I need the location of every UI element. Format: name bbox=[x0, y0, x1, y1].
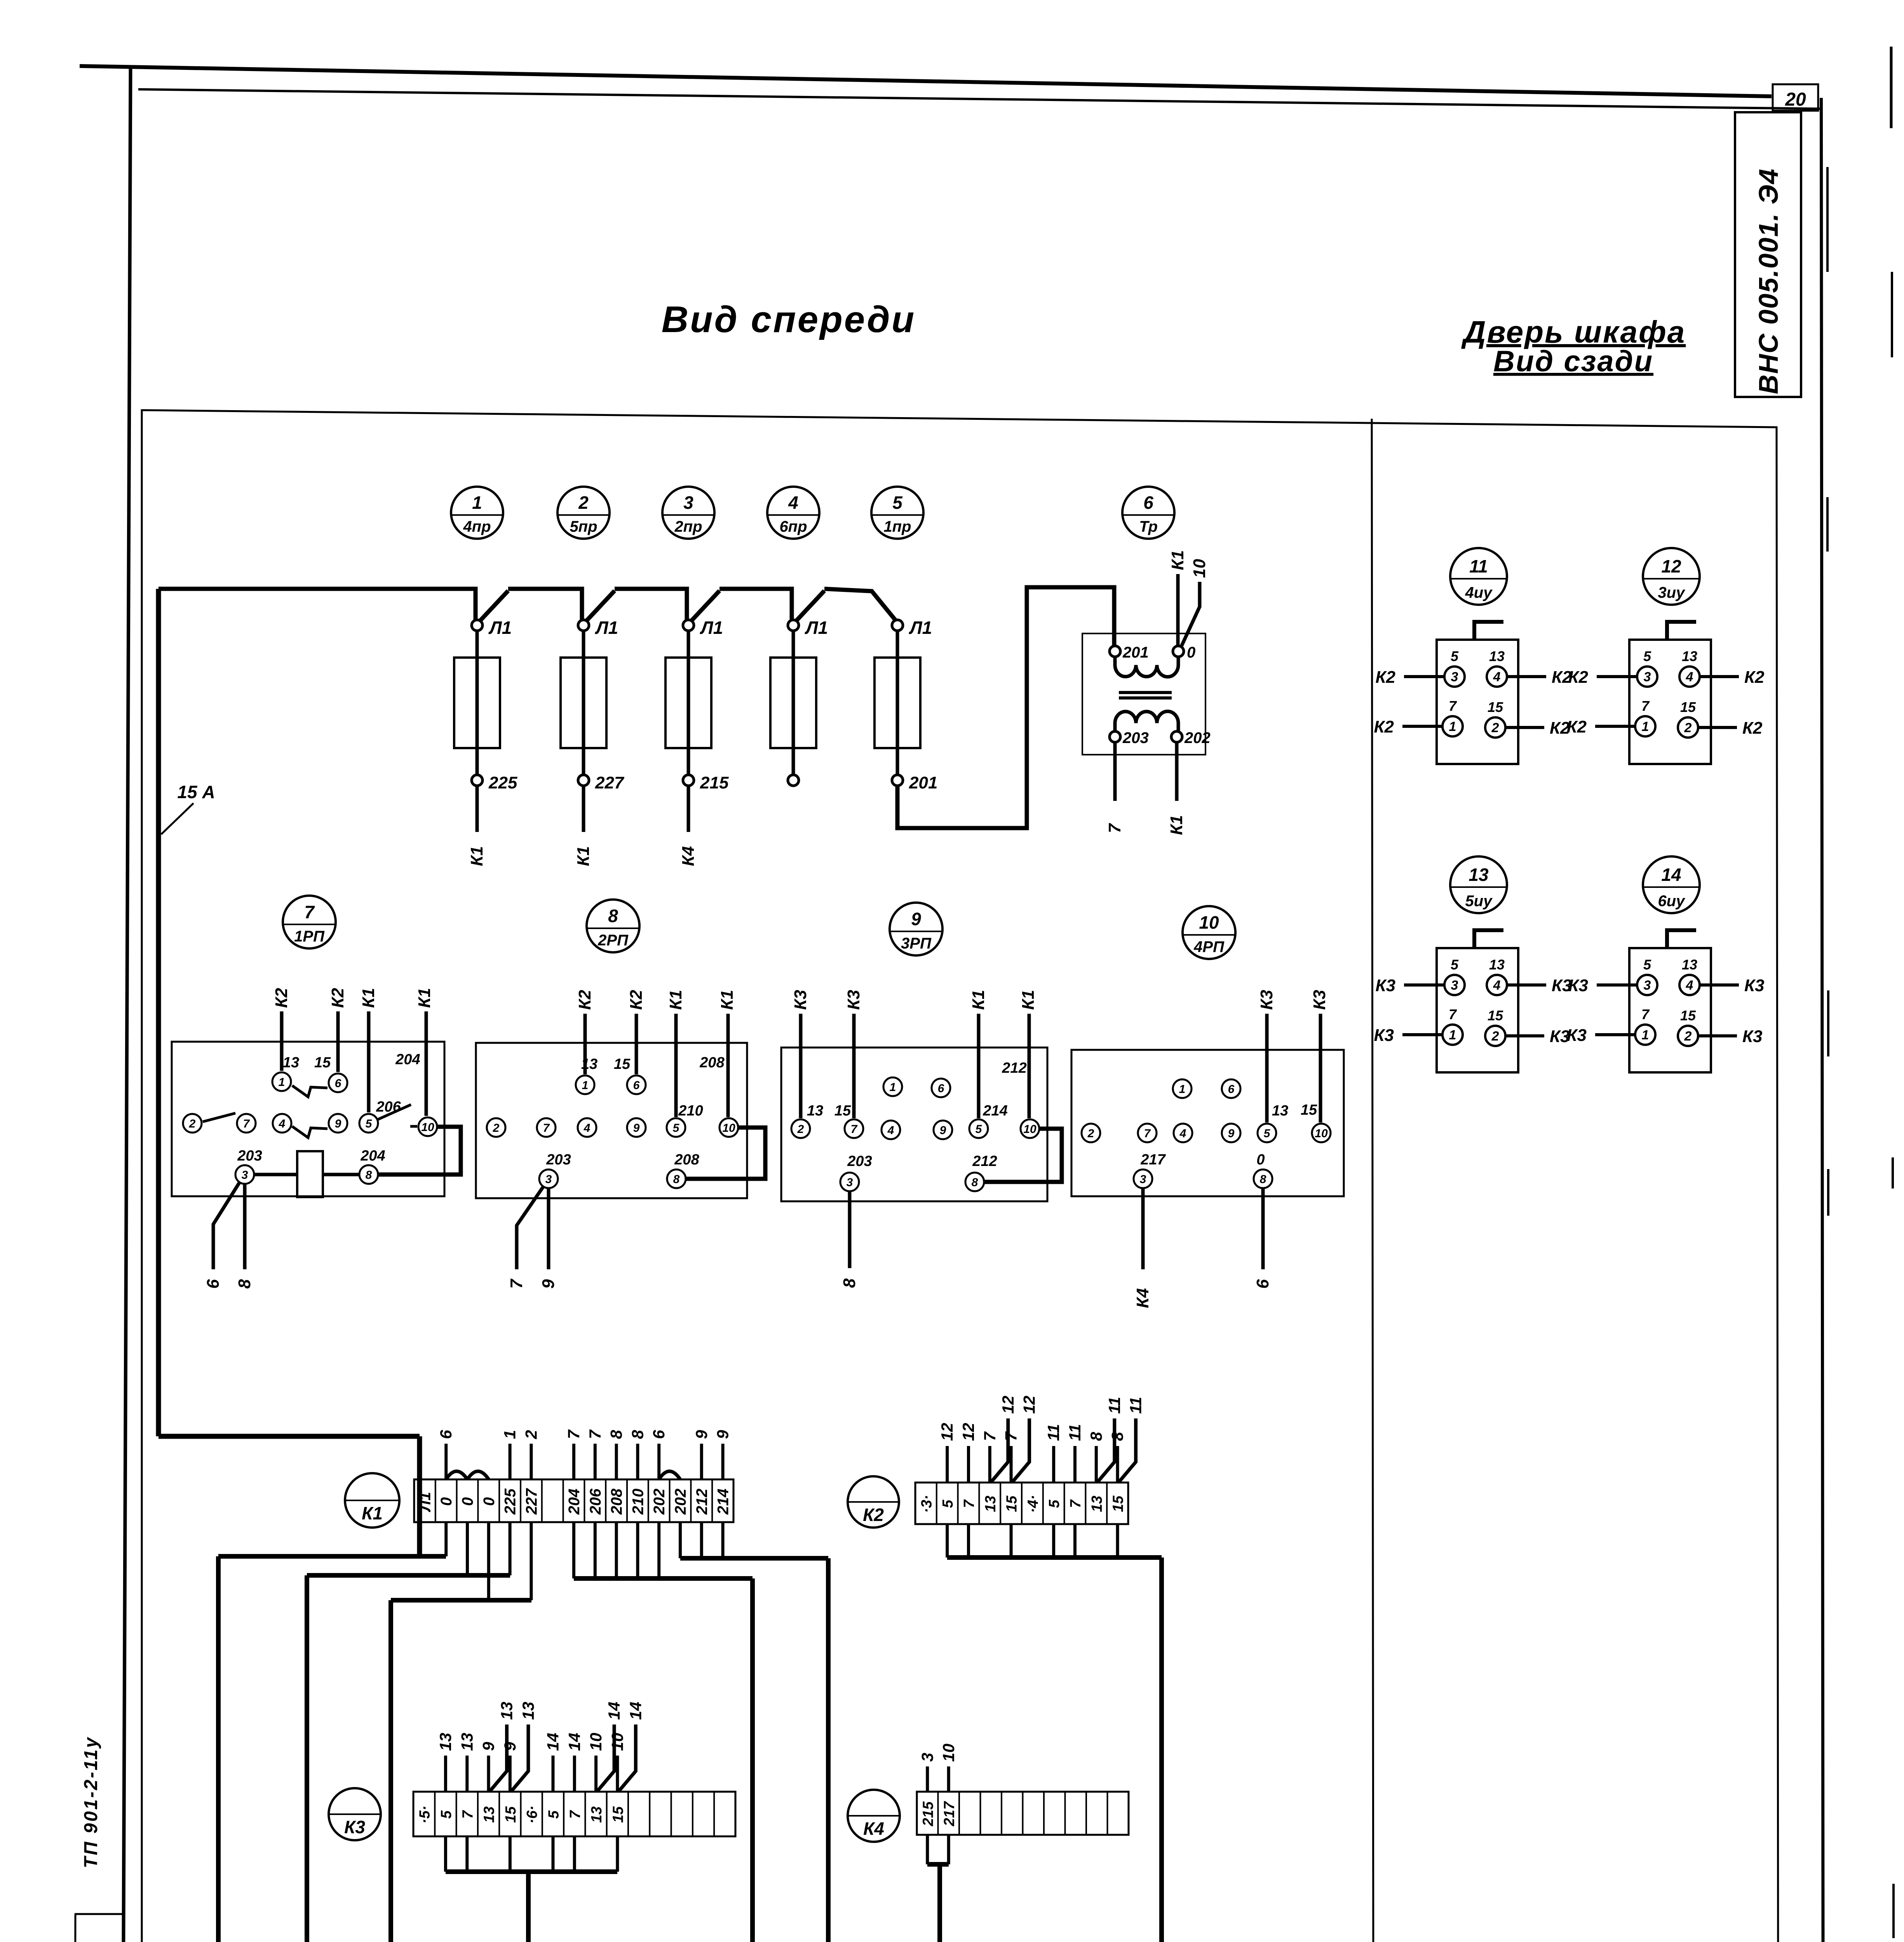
sheet number box bbox=[1773, 84, 1818, 111]
wire below К1 cell 14 bbox=[700, 1522, 703, 1558]
svg-text:К1: К1 bbox=[718, 990, 737, 1010]
svg-text:13: 13 bbox=[436, 1733, 455, 1751]
document number strip box bbox=[1735, 112, 1801, 397]
wire bus drop to К1 strip bbox=[417, 1436, 422, 1556]
svg-text:5пр: 5пр bbox=[570, 518, 597, 535]
svg-text:15: 15 bbox=[1488, 699, 1503, 715]
svg-text:4: 4 bbox=[279, 1117, 286, 1130]
connector 4иу pin 2 bbox=[1485, 717, 1505, 738]
svg-text:К3: К3 bbox=[1742, 1027, 1763, 1046]
connector 4иу pin 4 bbox=[1487, 666, 1507, 687]
fuse unit 2пр id circle 2/5пр bbox=[557, 487, 610, 539]
wire below К2 cell 3 bbox=[967, 1524, 970, 1557]
bent wire above К2 cell 9 bbox=[1098, 1418, 1115, 1482]
svg-text:203: 203 bbox=[847, 1153, 872, 1169]
connector 5иу pin 3 bbox=[1444, 975, 1465, 995]
svg-text:212: 212 bbox=[1002, 1060, 1026, 1076]
bent wire above К3 cell 10 bbox=[619, 1724, 636, 1791]
wire below К1 cell 5 bbox=[509, 1522, 512, 1575]
svg-text:4: 4 bbox=[1179, 1127, 1186, 1140]
switch node Л1 of fuse 5 bbox=[892, 620, 903, 631]
svg-text:3: 3 bbox=[1451, 670, 1458, 684]
svg-text:12: 12 bbox=[1661, 556, 1681, 576]
wire below К1 cell 11 bbox=[636, 1522, 639, 1578]
wire above К1 cell 12 bbox=[657, 1444, 660, 1479]
svg-text:225: 225 bbox=[488, 773, 517, 792]
relay 4РП pin 9 bbox=[1222, 1124, 1240, 1142]
relay 4РП pin 4 bbox=[1174, 1124, 1192, 1142]
svg-text:14: 14 bbox=[605, 1702, 623, 1720]
relay 1РП box bbox=[172, 1042, 444, 1196]
fuse unit 1пр id circle 1/4пр bbox=[451, 487, 503, 539]
svg-text:5: 5 bbox=[438, 1810, 455, 1819]
svg-text:7: 7 bbox=[981, 1431, 999, 1441]
svg-text:3РП: 3РП bbox=[901, 935, 932, 952]
svg-text:10: 10 bbox=[722, 1122, 735, 1135]
terminal strip К1 body bbox=[414, 1479, 733, 1522]
svg-text:13: 13 bbox=[1469, 865, 1489, 885]
svg-text:К1: К1 bbox=[1167, 815, 1186, 835]
svg-text:15: 15 bbox=[1488, 1008, 1503, 1023]
svg-text:13: 13 bbox=[581, 1056, 598, 1072]
svg-text:2пр: 2пр bbox=[674, 518, 702, 535]
relay 3РП pin 5 bbox=[969, 1119, 988, 1138]
wire К1 to relay 2РП bbox=[726, 1014, 730, 1117]
svg-text:14: 14 bbox=[626, 1702, 645, 1720]
contact tick at pin 10 of 1РП bbox=[410, 1125, 417, 1128]
wire above К1 cell 2 bbox=[444, 1444, 448, 1479]
svg-text:13: 13 bbox=[982, 1496, 999, 1512]
svg-text:7: 7 bbox=[460, 1810, 476, 1819]
svg-text:15: 15 bbox=[614, 1056, 631, 1072]
wire below К1 cell 9 bbox=[594, 1522, 597, 1578]
wire transformer pin 202 down bbox=[1175, 742, 1179, 801]
wire collector К3 to К5-3 bbox=[446, 1869, 617, 1874]
svg-text:4пр: 4пр bbox=[463, 518, 491, 535]
connector 6иу box bbox=[1629, 948, 1711, 1072]
wire through fuse 3 bbox=[687, 630, 690, 776]
jumper К1 cells 2-3 bbox=[446, 1471, 467, 1479]
svg-text:15: 15 bbox=[1301, 1102, 1317, 1118]
relay 2РП pin 2 bbox=[487, 1118, 505, 1137]
wire through fuse 2 bbox=[582, 630, 585, 776]
connector 4иу pin 1 bbox=[1442, 716, 1463, 736]
wire below К1 cell 3 bbox=[466, 1522, 469, 1575]
relay 4РП pin 1 bbox=[1173, 1079, 1192, 1098]
lead pin 4 to К2 of 3иу bbox=[1700, 675, 1739, 678]
svg-text:6: 6 bbox=[1253, 1279, 1272, 1289]
svg-text:10: 10 bbox=[939, 1744, 958, 1762]
relay 4РП pin 5 bbox=[1258, 1124, 1276, 1142]
svg-text:9: 9 bbox=[911, 909, 921, 929]
svg-text:11: 11 bbox=[1469, 556, 1488, 576]
connector 3иу box bbox=[1629, 640, 1711, 764]
svg-text:210: 210 bbox=[629, 1489, 646, 1515]
fuse body 4 bbox=[770, 658, 816, 748]
svg-text:6: 6 bbox=[938, 1082, 944, 1095]
relay 3РП pin 7 bbox=[845, 1119, 863, 1138]
lead pin 4 to К3 of 5иу bbox=[1507, 983, 1546, 987]
svg-text:208: 208 bbox=[674, 1152, 699, 1168]
svg-text:Л1: Л1 bbox=[700, 618, 723, 638]
svg-text:204: 204 bbox=[360, 1148, 385, 1164]
wire bus segment after fuse 2 bbox=[615, 589, 687, 620]
relay 2РП pin 9 bbox=[627, 1118, 646, 1137]
svg-text:9: 9 bbox=[335, 1117, 341, 1130]
svg-text:4: 4 bbox=[1686, 670, 1693, 684]
svg-text:К2: К2 bbox=[272, 988, 291, 1008]
svg-text:ВНС 005.001. Э4: ВНС 005.001. Э4 bbox=[1753, 168, 1784, 394]
scan artifact dashes right margin bbox=[1827, 47, 1894, 1942]
relay 3РП pin 1 bbox=[883, 1077, 902, 1096]
frame top border line bbox=[138, 89, 1821, 109]
wire below К2 cell 2 bbox=[946, 1524, 949, 1557]
svg-text:К2: К2 bbox=[1374, 717, 1394, 736]
svg-text:227: 227 bbox=[523, 1488, 540, 1515]
svg-text:13: 13 bbox=[589, 1806, 605, 1823]
fuse body 3 bbox=[665, 658, 711, 748]
svg-text:14: 14 bbox=[544, 1733, 562, 1751]
switch node Л1 of fuse 3 bbox=[683, 620, 694, 631]
svg-text:Дверь шкафа: Дверь шкафа bbox=[1461, 315, 1686, 349]
relay 4РП pin 2 bbox=[1082, 1124, 1100, 1142]
wire К3 to relay 4РП bbox=[1319, 1014, 1322, 1122]
svg-text:1: 1 bbox=[1449, 1028, 1456, 1042]
frame left border line bbox=[121, 67, 131, 1942]
wire bus segment after fuse 4 bbox=[824, 589, 896, 621]
lower node of fuse 2 bbox=[578, 775, 589, 786]
svg-text:6: 6 bbox=[633, 1079, 640, 1092]
svg-text:3: 3 bbox=[918, 1753, 936, 1762]
svg-text:6: 6 bbox=[1143, 492, 1153, 513]
svg-text:210: 210 bbox=[678, 1103, 703, 1119]
wire above К1 cell 14 bbox=[700, 1444, 703, 1479]
wire 15A feed bus vertical bbox=[156, 589, 161, 1436]
lead К3 to pin 1 of 5иу bbox=[1402, 1033, 1442, 1036]
relay 3РП box bbox=[781, 1048, 1047, 1201]
svg-text:9: 9 bbox=[633, 1122, 640, 1135]
wire К1 to relay 3РП bbox=[1028, 1014, 1031, 1118]
transformer pin 0 bbox=[1173, 646, 1184, 657]
svg-text:К1: К1 bbox=[969, 990, 988, 1010]
svg-text:1: 1 bbox=[279, 1076, 285, 1089]
switch blade of fuse 2 bbox=[586, 591, 615, 621]
svg-text:2РП: 2РП bbox=[598, 932, 629, 949]
connector 4иу pin 3 bbox=[1444, 666, 1465, 687]
wire below К1 cell 4 bbox=[487, 1522, 490, 1600]
svg-text:1: 1 bbox=[582, 1079, 589, 1092]
svg-text:К3: К3 bbox=[1375, 976, 1395, 995]
bent wire above К2 cell 5 bbox=[1013, 1418, 1030, 1482]
lead К2 to pin 3 of 4иу bbox=[1404, 675, 1444, 678]
wire К1 to relay 2РП bbox=[674, 1014, 678, 1117]
svg-text:Л1: Л1 bbox=[595, 618, 618, 638]
svg-text:7: 7 bbox=[1002, 1431, 1020, 1441]
svg-text:К3: К3 bbox=[791, 990, 810, 1010]
wire drop to К5-3 bbox=[526, 1872, 531, 1942]
svg-text:9: 9 bbox=[1228, 1127, 1235, 1140]
lead pin 2 to К2 of 3иу bbox=[1698, 726, 1737, 729]
svg-text:7: 7 bbox=[543, 1122, 550, 1135]
svg-text:203: 203 bbox=[237, 1148, 262, 1164]
relay 4РП id circle 10/4РП bbox=[1183, 906, 1235, 959]
relay 4РП pin 6 bbox=[1222, 1079, 1240, 1098]
frame right border line bbox=[1821, 98, 1824, 1942]
wire tail of fuse 1 bbox=[476, 786, 479, 832]
terminal strip К1 id circle bbox=[345, 1473, 399, 1528]
svg-text:К2: К2 bbox=[627, 990, 646, 1010]
svg-text:5: 5 bbox=[673, 1122, 680, 1135]
wire below К1 cell 2 bbox=[444, 1522, 448, 1556]
wire tail of fuse 2 bbox=[582, 786, 585, 832]
wire bus segment after fuse 3 bbox=[719, 589, 792, 620]
svg-text:К3: К3 bbox=[1568, 976, 1588, 995]
relay 2РП box bbox=[476, 1043, 747, 1198]
relay 4РП pin 7 bbox=[1138, 1124, 1157, 1142]
svg-text:6иу: 6иу bbox=[1658, 893, 1686, 910]
connector 3иу pin 4 bbox=[1679, 666, 1700, 687]
svg-text:К1: К1 bbox=[467, 846, 486, 866]
svg-text:0: 0 bbox=[1256, 1152, 1265, 1168]
lead pin 2 to К3 of 6иу bbox=[1698, 1034, 1737, 1037]
wire К2 to relay 1РП bbox=[280, 1011, 284, 1071]
svg-text:Тр: Тр bbox=[1139, 518, 1158, 535]
transformer secondary winding bbox=[1115, 711, 1178, 731]
wire coil to pin 8 of 1РП bbox=[323, 1173, 359, 1176]
relay 1РП pin 6 bbox=[329, 1074, 347, 1092]
svg-text:12: 12 bbox=[1020, 1396, 1038, 1414]
svg-text:5: 5 bbox=[892, 492, 903, 513]
svg-text:1: 1 bbox=[1449, 719, 1456, 734]
svg-text:0: 0 bbox=[481, 1497, 498, 1506]
left margin column boundary bbox=[74, 1914, 75, 1942]
svg-text:3: 3 bbox=[1644, 670, 1651, 684]
svg-text:10: 10 bbox=[1315, 1127, 1328, 1140]
relay 4РП pin 10 bbox=[1312, 1124, 1331, 1142]
svg-text:7: 7 bbox=[564, 1429, 583, 1439]
relay 1РП pin 10 bbox=[418, 1117, 437, 1136]
svg-text:5: 5 bbox=[1643, 648, 1651, 664]
svg-text:4иу: 4иу bbox=[1465, 584, 1493, 601]
svg-text:14: 14 bbox=[565, 1733, 584, 1751]
terminal strip К2 id circle bbox=[848, 1476, 899, 1528]
wire pin 3 to coil of 1РП bbox=[255, 1173, 297, 1176]
terminal strip К3 id circle bbox=[329, 1788, 381, 1840]
jumper К1 cells 12-13 bbox=[659, 1471, 680, 1479]
connector 4иу flag bbox=[1474, 622, 1503, 640]
svg-text:К3: К3 bbox=[1310, 990, 1329, 1010]
svg-text:8: 8 bbox=[840, 1278, 859, 1288]
svg-text:2: 2 bbox=[578, 492, 589, 513]
connector 3иу pin 3 bbox=[1637, 666, 1657, 687]
svg-text:12: 12 bbox=[959, 1423, 977, 1441]
wire above К2 cell 8 bbox=[1073, 1446, 1077, 1483]
svg-text:11: 11 bbox=[1066, 1424, 1084, 1441]
connector 3иу id circle 12/3иу bbox=[1643, 548, 1700, 605]
transformer pin 202 bbox=[1171, 731, 1182, 742]
wire below К3 cell 7 bbox=[551, 1836, 554, 1872]
relay 2РП pin 5 bbox=[667, 1118, 685, 1137]
connector 6иу pin 2 bbox=[1678, 1026, 1698, 1046]
svg-text:0: 0 bbox=[459, 1497, 476, 1506]
svg-text:К3: К3 bbox=[344, 1817, 365, 1837]
wire К1 to relay 1РП bbox=[367, 1011, 371, 1112]
svg-text:7: 7 bbox=[586, 1429, 604, 1439]
svg-text:14: 14 bbox=[1661, 865, 1681, 885]
relay 1РП pin 9 bbox=[329, 1114, 347, 1133]
svg-text:1: 1 bbox=[1642, 1028, 1649, 1042]
svg-text:13: 13 bbox=[1089, 1496, 1105, 1512]
svg-text:Вид сзади: Вид сзади bbox=[1493, 345, 1653, 378]
wire above К3 cell 10 bbox=[616, 1756, 619, 1792]
wire drop to К5-4 bbox=[826, 1558, 831, 1942]
lead pin 2 to К2 of 4иу bbox=[1505, 726, 1544, 729]
wire below К2 cell 8 bbox=[1073, 1524, 1077, 1557]
svg-text:7: 7 bbox=[1105, 823, 1124, 833]
svg-text:8: 8 bbox=[607, 1430, 625, 1439]
svg-text:7: 7 bbox=[851, 1123, 858, 1136]
svg-text:201: 201 bbox=[909, 773, 937, 792]
lower node of fuse 5 bbox=[892, 775, 903, 786]
svg-text:15: 15 bbox=[610, 1806, 626, 1823]
relay 2РП pin 4 bbox=[578, 1118, 596, 1137]
wire above К2 cell 9 bbox=[1095, 1446, 1098, 1483]
svg-text:0: 0 bbox=[438, 1497, 455, 1506]
wire above К4 cell 2 bbox=[947, 1766, 950, 1792]
relay 3РП pin 2 bbox=[791, 1119, 810, 1138]
svg-text:9: 9 bbox=[501, 1742, 519, 1751]
jumper К1 cells 3-4 bbox=[467, 1471, 489, 1479]
svg-text:206: 206 bbox=[376, 1099, 401, 1115]
wire collector 0/227 to 2ДМ-1 bbox=[391, 1598, 531, 1603]
svg-text:К2: К2 bbox=[1742, 719, 1763, 738]
svg-text:7: 7 bbox=[507, 1278, 526, 1289]
wire К3 to relay 3РП bbox=[799, 1014, 803, 1118]
svg-text:15: 15 bbox=[503, 1806, 519, 1823]
svg-text:К1: К1 bbox=[1019, 990, 1038, 1010]
svg-text:К4: К4 bbox=[863, 1818, 884, 1839]
relay 2РП pin 3 bbox=[539, 1169, 558, 1188]
bent wire above К3 cell 4 bbox=[490, 1724, 507, 1791]
svg-text:13: 13 bbox=[519, 1702, 537, 1720]
svg-text:15: 15 bbox=[1110, 1495, 1127, 1512]
svg-text:217: 217 bbox=[941, 1801, 958, 1826]
svg-text:6пр: 6пр bbox=[779, 518, 807, 535]
connector 6иу flag bbox=[1667, 930, 1696, 948]
connector 3иу pin 1 bbox=[1635, 716, 1655, 736]
wire below К2 cell 7 bbox=[1052, 1524, 1055, 1557]
wire above К1 cell 5 bbox=[509, 1444, 512, 1479]
relay 3РП pin 8 bbox=[965, 1173, 984, 1191]
svg-text:6: 6 bbox=[650, 1430, 668, 1439]
svg-text:15: 15 bbox=[1680, 1008, 1696, 1023]
svg-text:13: 13 bbox=[1489, 648, 1505, 664]
svg-text:9: 9 bbox=[940, 1124, 946, 1137]
wire pin 3 down-left of 1РП bbox=[213, 1182, 240, 1269]
svg-text:13: 13 bbox=[458, 1733, 476, 1751]
svg-text:К2: К2 bbox=[1744, 668, 1765, 687]
wire above К3 cell 5 bbox=[509, 1756, 512, 1792]
svg-text:К4: К4 bbox=[679, 846, 698, 866]
svg-text:215: 215 bbox=[700, 773, 729, 792]
svg-text:3: 3 bbox=[242, 1169, 248, 1182]
wire collector Л1/0 to ЯУ-1 bbox=[218, 1554, 446, 1559]
svg-text:1: 1 bbox=[472, 492, 482, 513]
svg-text:К1: К1 bbox=[362, 1503, 383, 1523]
wire below К4 cell 2 bbox=[947, 1835, 950, 1864]
relay 3РП id circle 9/3РП bbox=[890, 903, 942, 955]
svg-text:К1: К1 bbox=[1168, 550, 1187, 570]
connector 5иу pin 2 bbox=[1485, 1026, 1505, 1046]
sheet top paper edge line bbox=[80, 66, 1772, 96]
svg-text:8: 8 bbox=[235, 1279, 254, 1289]
svg-text:5: 5 bbox=[940, 1500, 956, 1508]
connector 6иу pin 4 bbox=[1679, 975, 1700, 995]
svg-text:10: 10 bbox=[1023, 1123, 1036, 1136]
wire above К2 cell 10 bbox=[1116, 1446, 1119, 1483]
svg-text:227: 227 bbox=[595, 773, 625, 792]
lead К2 to pin 1 of 4иу bbox=[1402, 725, 1442, 728]
relay 4РП pin 8 bbox=[1254, 1169, 1272, 1188]
connector 5иу box bbox=[1437, 948, 1518, 1072]
svg-text:6: 6 bbox=[335, 1077, 341, 1090]
svg-text:6: 6 bbox=[437, 1430, 455, 1439]
svg-text:15: 15 bbox=[834, 1103, 851, 1119]
relay 1РП pin 4 bbox=[273, 1114, 291, 1133]
relay 1РП pin 5 bbox=[359, 1114, 378, 1133]
switch blade of fuse 4 bbox=[796, 591, 824, 621]
relay 3РП pin 3 bbox=[840, 1173, 859, 1191]
lead К3 to pin 1 of 6иу bbox=[1595, 1033, 1635, 1036]
svg-text:201: 201 bbox=[1122, 644, 1149, 661]
wire through fuse 1 bbox=[476, 630, 479, 776]
wire below К1 cell 15 bbox=[721, 1522, 725, 1558]
wire К1 to transformer pin 0 bbox=[1176, 574, 1180, 646]
wire below К1 cell 13 bbox=[679, 1522, 682, 1558]
transformer core bars bbox=[1119, 693, 1172, 698]
wire collector К2 to К3-3 bbox=[947, 1555, 1162, 1560]
svg-text:12: 12 bbox=[999, 1396, 1017, 1414]
svg-text:К2: К2 bbox=[1568, 668, 1588, 687]
svg-text:9: 9 bbox=[479, 1742, 498, 1751]
svg-text:5: 5 bbox=[1643, 957, 1651, 973]
svg-text:8: 8 bbox=[628, 1430, 646, 1439]
contact blade 1-6 of 1РП bbox=[292, 1086, 327, 1097]
relay 1РП pin 3 bbox=[235, 1165, 254, 1184]
wire above К3 cell 7 bbox=[551, 1756, 554, 1792]
svg-text:5: 5 bbox=[1264, 1127, 1271, 1140]
switch node Л1 of fuse 1 bbox=[472, 620, 483, 631]
wire above К4 cell 1 bbox=[926, 1766, 929, 1792]
connector 5иу pin 1 bbox=[1442, 1025, 1463, 1045]
wire below К2 cell 5 bbox=[1010, 1524, 1013, 1557]
svg-text:212: 212 bbox=[972, 1153, 997, 1169]
wire below К3 cell 10 bbox=[616, 1836, 619, 1872]
svg-text:6: 6 bbox=[204, 1279, 223, 1289]
lead pin 4 to К2 of 4иу bbox=[1507, 675, 1546, 678]
svg-text:4: 4 bbox=[887, 1124, 894, 1137]
relay 1РП id circle 7/1РП bbox=[283, 896, 336, 948]
terminal strip К3 body bbox=[413, 1792, 735, 1836]
transformer pin 203 bbox=[1110, 731, 1120, 742]
svg-text:Л1: Л1 bbox=[805, 618, 828, 638]
lead К2 to pin 3 of 3иу bbox=[1597, 675, 1637, 678]
wire above К1 cell 10 bbox=[615, 1444, 618, 1479]
wire drop to 2ДМ-1 bbox=[388, 1600, 393, 1942]
svg-text:1РП: 1РП bbox=[294, 928, 325, 945]
svg-text:·5·: ·5· bbox=[417, 1806, 433, 1824]
relay 4РП pin 3 bbox=[1134, 1169, 1152, 1188]
